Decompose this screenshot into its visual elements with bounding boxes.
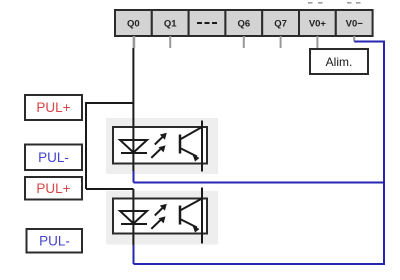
svg-text:V0+: V0+	[309, 19, 327, 30]
svg-text:PUL+: PUL+	[36, 100, 70, 115]
svg-text:Alim.: Alim.	[326, 55, 353, 69]
svg-text:PUL-: PUL-	[39, 234, 70, 249]
svg-text:Q6: Q6	[237, 19, 250, 30]
svg-text:PUL-: PUL-	[38, 150, 69, 165]
svg-text:Q7: Q7	[274, 19, 287, 30]
svg-text:PUL+: PUL+	[36, 181, 70, 196]
svg-text:Q1: Q1	[164, 19, 177, 30]
svg-text:V0−: V0−	[346, 19, 364, 30]
svg-text:Q0: Q0	[127, 19, 140, 30]
